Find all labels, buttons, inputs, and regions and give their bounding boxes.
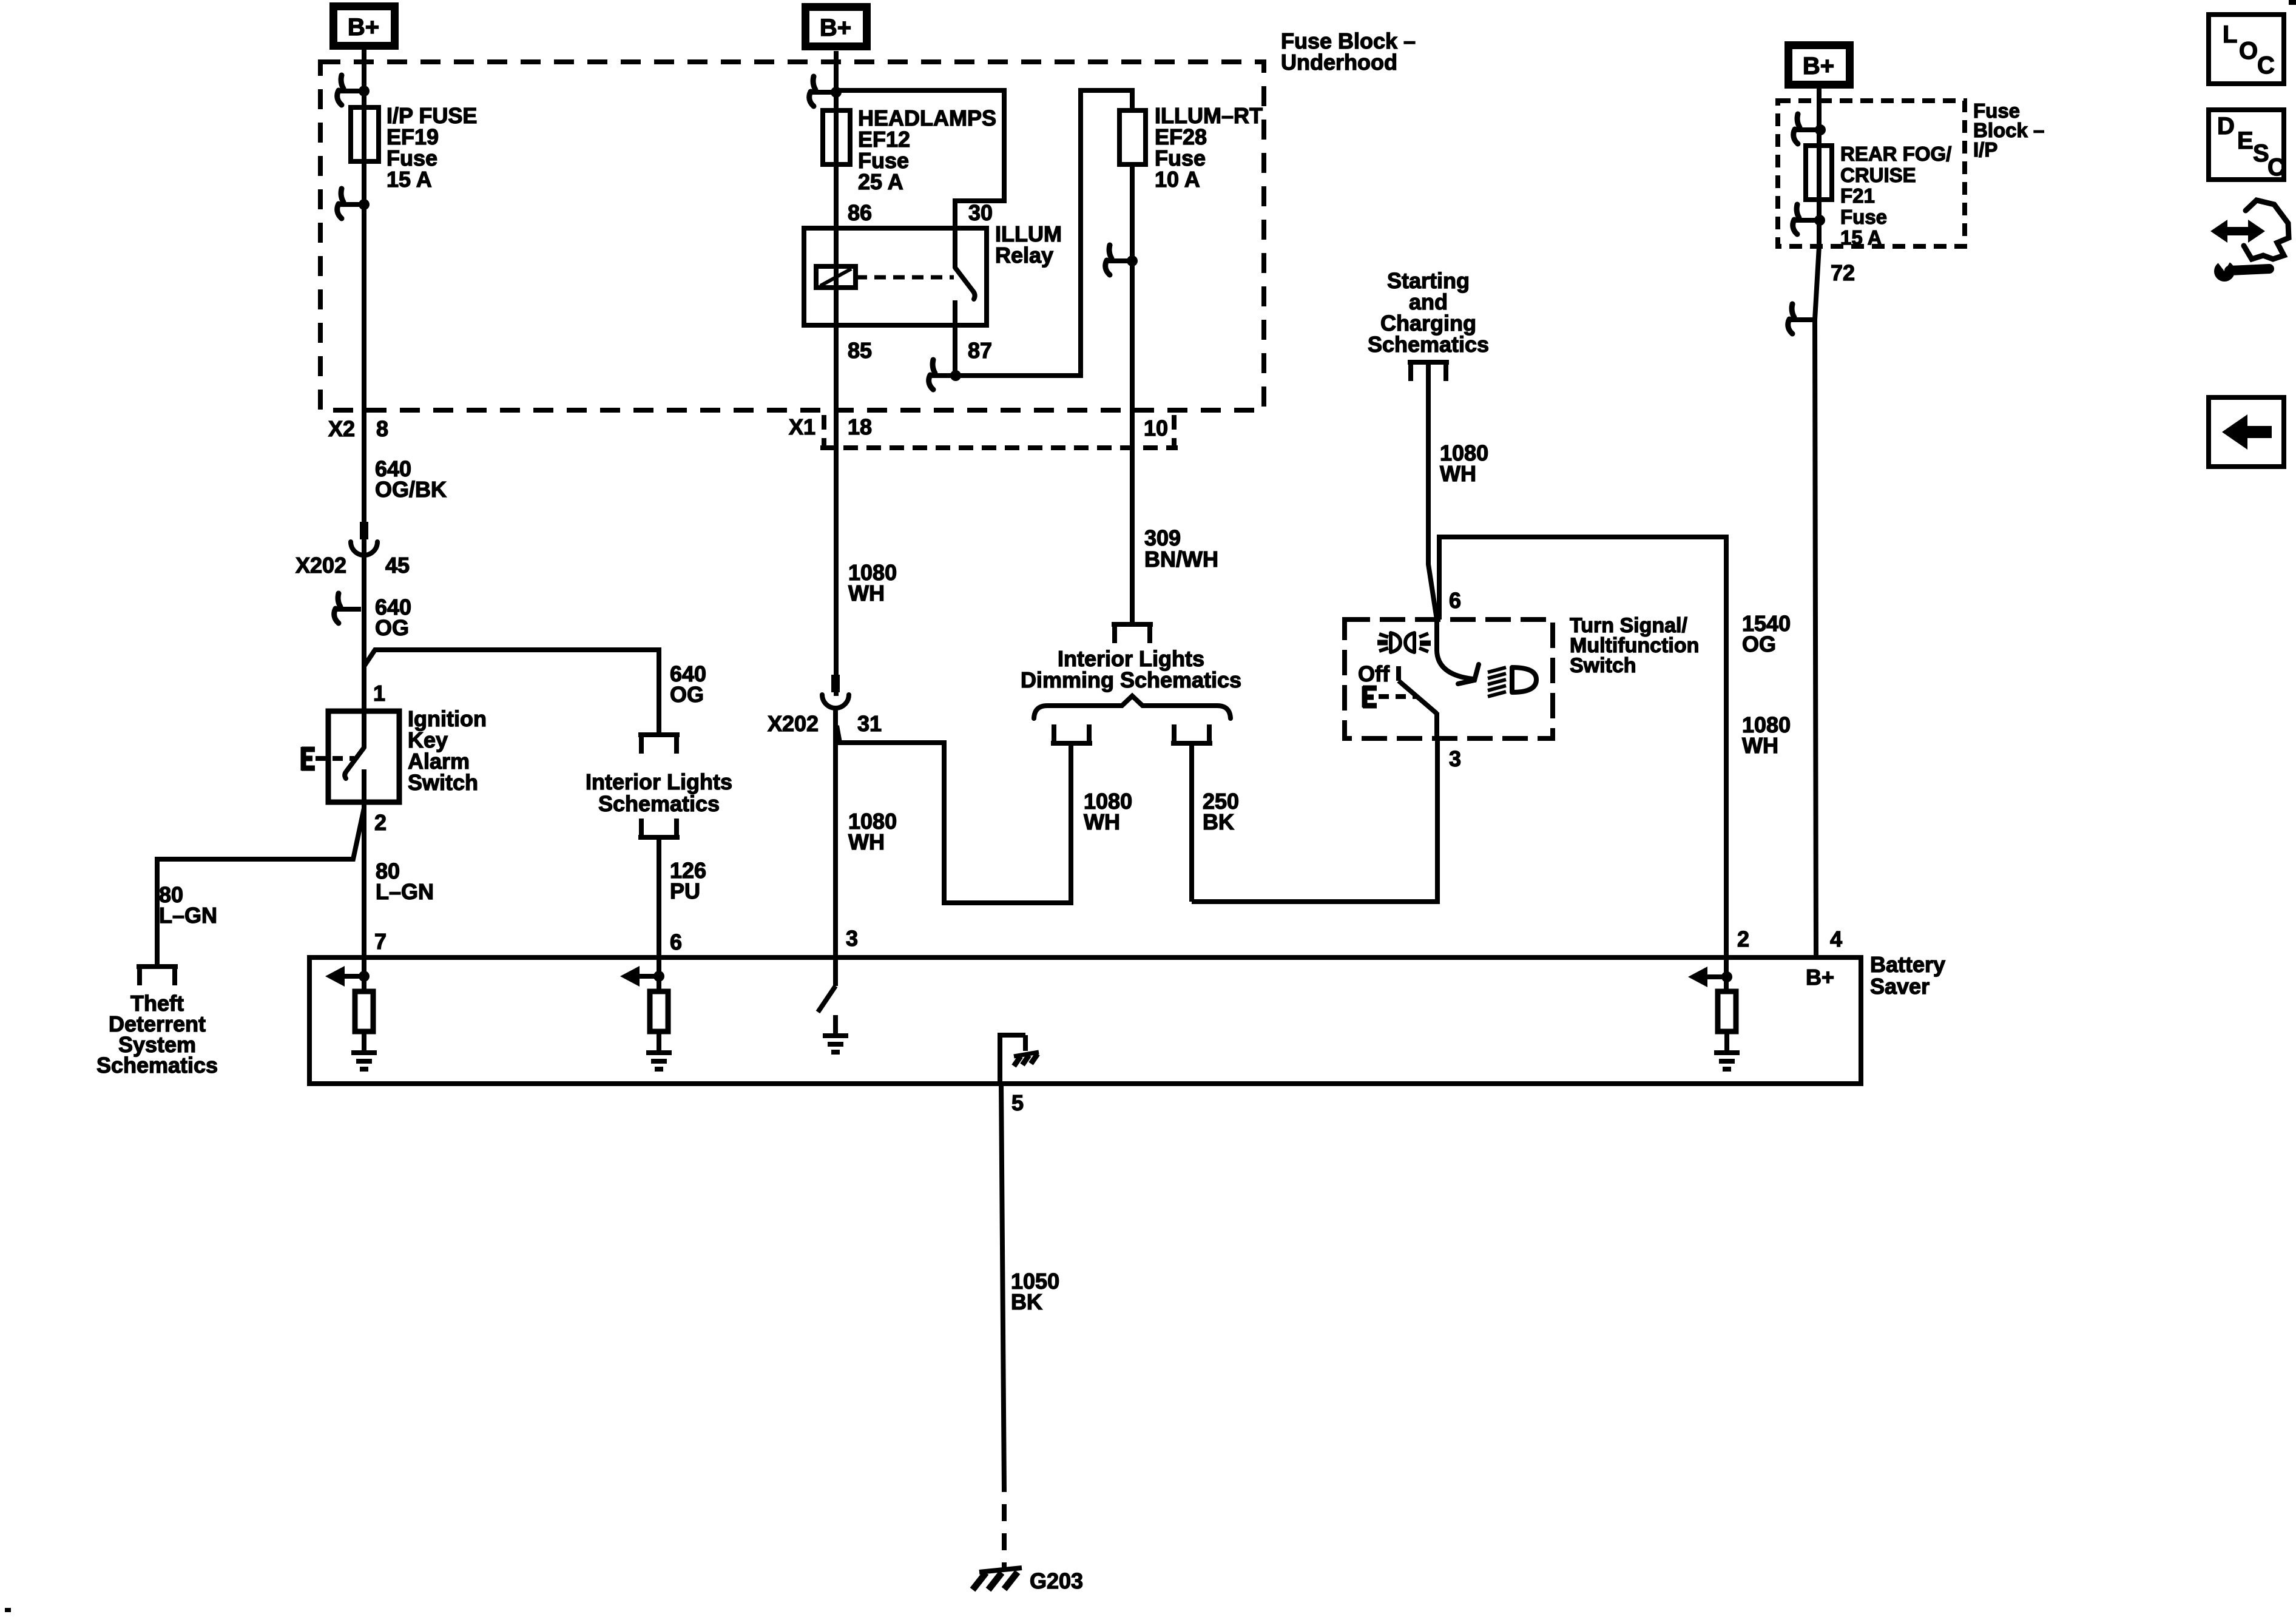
svg-text:Switch: Switch [408,770,478,795]
svg-text:WH: WH [1440,461,1476,486]
svg-text:WH: WH [848,829,885,854]
svg-text:B+: B+ [1803,53,1834,79]
svg-text:Relay: Relay [995,243,1053,268]
svg-text:2: 2 [1737,927,1749,951]
svg-text:O: O [2239,38,2258,64]
svg-text:Interior Lights: Interior Lights [586,769,732,794]
svg-text:7: 7 [374,929,387,954]
svg-text:Off: Off [1358,661,1390,686]
svg-text:X202: X202 [295,553,346,578]
svg-text:PU: PU [670,879,700,903]
svg-text:15 A: 15 A [387,167,432,192]
svg-text:B+: B+ [348,14,379,41]
svg-text:B+: B+ [1806,965,1834,990]
svg-text:C: C [2267,154,2285,181]
svg-text:6: 6 [670,930,682,954]
svg-text:4: 4 [1830,927,1842,951]
svg-text:L–GN: L–GN [376,879,434,904]
svg-text:10 A: 10 A [1155,167,1200,192]
svg-text:87: 87 [968,338,992,363]
svg-text:BK: BK [1011,1289,1042,1314]
svg-text:CRUISE: CRUISE [1840,164,1916,186]
svg-text:X1: X1 [789,414,815,439]
svg-text:30: 30 [968,200,993,225]
svg-text:3: 3 [1449,746,1461,771]
svg-text:I/P: I/P [1973,138,1997,161]
svg-text:31: 31 [857,711,882,736]
svg-text:Switch: Switch [1570,654,1636,677]
svg-text:86: 86 [848,200,872,225]
svg-text:Saver: Saver [1870,974,1930,999]
svg-text:6: 6 [1449,588,1461,613]
svg-text:Underhood: Underhood [1281,50,1397,75]
svg-text:8: 8 [376,416,388,441]
svg-text:BK: BK [1203,809,1234,834]
svg-text:WH: WH [848,581,885,606]
svg-text:OG/BK: OG/BK [375,477,447,502]
svg-text:Schematics: Schematics [96,1053,218,1078]
svg-text:E: E [2237,127,2254,154]
svg-text:WH: WH [1742,733,1778,758]
svg-text:25 A: 25 A [858,169,903,194]
svg-text:Battery: Battery [1870,952,1945,977]
svg-text:D: D [2217,113,2235,140]
svg-text:OG: OG [375,615,409,640]
svg-text:2: 2 [374,810,387,835]
svg-text:OG: OG [670,682,704,707]
svg-text:72: 72 [1831,260,1855,285]
svg-text:S: S [2253,140,2269,167]
svg-text:Schematics: Schematics [598,791,720,816]
svg-text:5: 5 [1011,1090,1024,1115]
svg-text:X202: X202 [768,711,819,736]
svg-text:L–GN: L–GN [159,903,217,928]
svg-text:1: 1 [373,681,385,706]
svg-text:Fuse: Fuse [1840,206,1887,228]
svg-text:Schematics: Schematics [1368,332,1489,357]
svg-text:WH: WH [1084,809,1120,834]
svg-text:L: L [2223,21,2237,48]
svg-text:B+: B+ [820,15,851,41]
svg-text:G203: G203 [1030,1568,1083,1593]
svg-text:Dimming Schematics: Dimming Schematics [1021,667,1241,692]
svg-text:REAR FOG/: REAR FOG/ [1840,143,1951,165]
svg-text:BN/WH: BN/WH [1144,547,1218,572]
svg-text:OG: OG [1742,632,1776,657]
svg-text:C: C [2257,52,2275,79]
svg-text:18: 18 [848,414,872,439]
svg-text:3: 3 [846,926,858,951]
svg-text:45: 45 [385,553,410,578]
svg-text:15 A: 15 A [1840,226,1882,249]
svg-text:10: 10 [1144,416,1168,441]
svg-text:X2: X2 [328,416,355,441]
svg-text:85: 85 [848,338,872,363]
svg-text:F21: F21 [1840,184,1875,207]
